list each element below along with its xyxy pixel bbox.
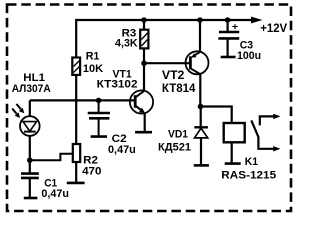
wire R3 top bbox=[143, 20, 145, 30]
ground bar under C2 bbox=[91, 135, 107, 138]
wire top +12V rail bbox=[76, 19, 252, 21]
capacitor C3 bbox=[218, 20, 239, 57]
resistor R3 bbox=[140, 30, 148, 49]
svg-text:4,3K: 4,3K bbox=[115, 38, 138, 50]
svg-text:RAS-1215: RAS-1215 bbox=[221, 169, 276, 181]
wire relay coil bottom bbox=[231, 142, 233, 163]
ground bar under VD1 bbox=[194, 164, 209, 167]
relay contact lower throw bbox=[258, 137, 280, 152]
resistor R1 bbox=[72, 58, 80, 75]
svg-text:+: + bbox=[232, 22, 239, 33]
svg-text:R1: R1 bbox=[86, 50, 100, 62]
node junction dot C2 tap bbox=[96, 98, 102, 104]
relay contact blade bbox=[251, 120, 258, 137]
svg-text:+12V: +12V bbox=[260, 21, 287, 35]
ground bar under C3 bbox=[221, 56, 236, 59]
junction dot rail R3 bbox=[141, 17, 147, 23]
transistor VT1 bbox=[130, 90, 153, 113]
ground bar under R2 bbox=[67, 182, 85, 185]
+12V supply arrow bbox=[251, 17, 263, 24]
svg-text:КТ814: КТ814 bbox=[162, 81, 196, 95]
junction dot VT2 collector/VD1/relay bbox=[198, 104, 204, 110]
wire R2 bottom bbox=[75, 162, 77, 183]
capacitor C1 bbox=[21, 174, 39, 198]
LED HL1 bbox=[20, 100, 40, 173]
transistor VT2 bbox=[186, 51, 209, 74]
svg-text:КТ3102: КТ3102 bbox=[97, 79, 138, 91]
junction dot rail C3 bbox=[225, 17, 231, 23]
diode VD1 bbox=[194, 107, 208, 165]
wire R3 bottom bbox=[143, 48, 145, 63]
svg-text:10K: 10K bbox=[83, 63, 104, 75]
wire VT2 emitter up bbox=[199, 20, 201, 52]
node junction dot LED/C1/R2 bbox=[27, 157, 33, 163]
wire R1 bottom through node to R2 top bbox=[75, 75, 77, 144]
wire VT2 base bbox=[144, 62, 189, 64]
wire to relay coil bbox=[201, 107, 232, 124]
svg-text:0,47u: 0,47u bbox=[41, 188, 69, 200]
relay K1 coil bbox=[224, 123, 245, 142]
wire VT1 emitter down bbox=[144, 113, 146, 132]
svg-text:0,47u: 0,47u bbox=[108, 144, 136, 156]
HL1 light arrow 2 bbox=[12, 109, 20, 119]
svg-text:100u: 100u bbox=[237, 50, 261, 62]
ground bar under C1 bbox=[24, 197, 38, 200]
junction dot R3/VT1 collector/VT2 base bbox=[141, 60, 147, 66]
capacitor C2 bbox=[88, 100, 110, 136]
resistor R2 bbox=[73, 144, 80, 162]
svg-text:VD1: VD1 bbox=[168, 129, 188, 141]
svg-text:КД521: КД521 bbox=[158, 142, 191, 154]
ground bar under relay coil bbox=[225, 162, 241, 165]
wire node A horizontal (LED / divider / C2 / VT1 base) bbox=[30, 99, 136, 101]
svg-text:K1: K1 bbox=[245, 156, 258, 168]
wire left vertical from rail to R1 bbox=[75, 19, 77, 58]
svg-text:R2: R2 bbox=[83, 155, 98, 167]
junction dot rail VT2 emitter bbox=[197, 17, 203, 23]
svg-text:АЛ307А: АЛ307А bbox=[12, 83, 51, 95]
wire VT2 collector down bbox=[199, 74, 201, 107]
wire VT1 collector up bbox=[143, 63, 145, 91]
HL1 light arrow 1 bbox=[16, 104, 24, 114]
relay contact upper throw bbox=[260, 114, 281, 126]
wire step from LED node to R2 bbox=[30, 154, 73, 161]
svg-text:470: 470 bbox=[82, 166, 101, 178]
ground bar under VT1 emitter bbox=[135, 131, 152, 134]
dashed enclosure border bbox=[7, 5, 291, 212]
